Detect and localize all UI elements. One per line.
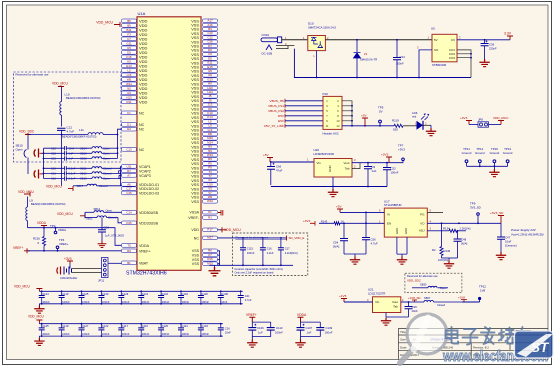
svg-text:+3V3: +3V3 — [64, 257, 72, 261]
svg-text:N5: N5 — [127, 86, 131, 90]
svg-text:+5V: +5V — [336, 205, 343, 209]
svg-text:VREF+: VREF+ — [59, 242, 69, 246]
svg-text:Vin: Vin — [317, 161, 322, 165]
svg-text:4.7uF: 4.7uF — [371, 242, 378, 246]
ground R136/C48 — [444, 261, 454, 269]
U1 left VDD pins — [122, 19, 137, 23]
svg-text:K5: K5 — [127, 59, 131, 63]
wire CN10 pin1 to D10 — [282, 39, 308, 41]
svg-text:L10: L10 — [65, 92, 70, 96]
wire to TP12 — [462, 301, 480, 303]
svg-text:Tab: Tab — [345, 167, 350, 171]
wire +5V to U17 VI — [340, 211, 384, 213]
svg-text:Closed: Closed — [437, 303, 446, 307]
svg-text:NC: NC — [139, 123, 145, 127]
ladder left bus — [43, 148, 45, 178]
svg-text:VDDLDO-03: VDDLDO-03 — [139, 192, 159, 196]
svg-text:1uF: 1uF — [307, 331, 312, 335]
svg-text:100nF: 100nF — [122, 300, 130, 304]
svg-text:BEAD(FCM1608KF-601T03): BEAD(FCM1608KF-601T03) — [31, 202, 65, 206]
svg-text:GND: GND — [328, 165, 332, 173]
svg-text:+3V3: +3V3 — [460, 116, 468, 120]
wire bottom return bus — [294, 49, 471, 78]
svg-text:C17: C17 — [285, 247, 290, 251]
svg-text:U5V_ST_LINK: U5V_ST_LINK — [264, 124, 285, 128]
svg-text:4.7uF: 4.7uF — [67, 129, 75, 133]
U1 left lower pins — [122, 111, 137, 115]
wire VDD_SDC branch to pads — [27, 136, 29, 174]
svg-text:+3V3_SD: +3V3_SD — [490, 211, 504, 215]
svg-text:G11: G11 — [126, 41, 132, 45]
svg-text:VDDA: VDDA — [297, 313, 307, 317]
svg-text:R1: R1 — [208, 215, 212, 219]
wire bypass caps return bus — [220, 264, 294, 266]
capacitor C16 — [262, 238, 264, 248]
svg-text:N13: N13 — [126, 95, 132, 99]
watermark elecfans logo — [400, 314, 553, 365]
svg-text:U9: U9 — [127, 91, 131, 95]
svg-text:3.3V: 3.3V — [504, 32, 512, 36]
svg-text:R119: R119 — [392, 119, 399, 123]
net label VDD_MCU at U1 pin P17 — [218, 229, 223, 231]
svg-text:C119: C119 — [62, 292, 69, 296]
wire U1 bottom VSS pins to ground — [218, 251, 220, 265]
svg-text:F1: F1 — [127, 111, 131, 115]
svg-text:D5V: D5V — [278, 114, 285, 118]
svg-text:+5V: +5V — [361, 114, 368, 118]
power bar VSSA/VREF- (U1 right) — [218, 210, 223, 216]
wire P10 pin12 to LED — [342, 125, 394, 127]
svg-text:C126: C126 — [162, 324, 169, 328]
svg-text:U5: U5 — [431, 27, 435, 31]
wire VREF+ to U1 — [28, 250, 122, 252]
svg-text:F3: F3 — [127, 32, 131, 36]
svg-text:+3V3: +3V3 — [381, 153, 389, 157]
svg-text:VDD_MCU: VDD_MCU — [493, 116, 508, 120]
svg-text:+3V3: +3V3 — [303, 219, 311, 223]
svg-text:B9: B9 — [127, 23, 131, 27]
ground VDDA caps — [301, 336, 321, 338]
svg-text:VBUS_FS1: VBUS_FS1 — [268, 104, 284, 108]
svg-text:SB27: SB27 — [424, 296, 431, 300]
svg-text:C117: C117 — [122, 324, 129, 328]
svg-text:C118: C118 — [201, 292, 208, 296]
svg-text:VDD_MCU: VDD_MCU — [57, 212, 73, 216]
svg-text:VCAP3: VCAP3 — [139, 174, 151, 178]
title block frame — [398, 328, 548, 359]
svg-text:P17: P17 — [207, 228, 213, 232]
svg-text:VI: VI — [387, 213, 390, 217]
ground C47 — [496, 252, 506, 260]
svg-text:P10: P10 — [323, 92, 329, 96]
svg-text:E3: E3 — [127, 127, 131, 131]
svg-text:C125: C125 — [42, 324, 49, 328]
svg-text:SO: SO — [434, 48, 439, 52]
capacitor C66 (47uF) — [267, 167, 275, 170]
svg-text:3V3_SD: 3V3_SD — [470, 205, 481, 209]
svg-text:TP3: TP3 — [50, 224, 56, 228]
svg-text:Reserved for alternate use: Reserved for alternate use — [16, 73, 49, 77]
svg-text:SMAJ5.0A-TR: SMAJ5.0A-TR — [360, 58, 377, 62]
svg-text:Placement for alternate use: Placement for alternate use — [235, 235, 268, 239]
svg-text:100nF: 100nF — [42, 332, 50, 336]
svg-text:NC: NC — [139, 148, 145, 152]
svg-text:VDD_MCU: VDD_MCU — [14, 285, 30, 289]
wire ADJ — [427, 230, 441, 232]
wire +5V to U20 Vin — [270, 161, 314, 163]
wire U5 CO1-3 tie — [457, 50, 471, 78]
svg-text:Header 6X2: Header 6X2 — [323, 132, 339, 136]
capacitor C110 — [267, 328, 275, 331]
svg-text:JP11: JP11 — [98, 279, 105, 283]
svg-text:ST890CDR: ST890CDR — [432, 63, 446, 67]
capacitor C52 — [386, 163, 388, 168]
ground LED — [430, 125, 432, 128]
ground TPs symbol — [489, 169, 499, 177]
capacitor C17 — [280, 238, 282, 248]
ladder right bus B — [120, 166, 122, 186]
pad symbol (EMI box lower) — [34, 170, 38, 179]
svg-text:VDD_MCU: VDD_MCU — [28, 315, 44, 319]
svg-text:PG: PG — [420, 213, 425, 217]
svg-text:10nF: 10nF — [412, 309, 419, 313]
svg-text:SM6T24CA 15KA 24.5: SM6T24CA 15KA 24.5 — [308, 25, 336, 29]
decoupling capacitor row 2 (C125..C16) — [39, 323, 222, 325]
svg-text:100nF: 100nF — [182, 332, 190, 336]
svg-text:GND: GND — [395, 228, 399, 234]
svg-text:C21: C21 — [245, 294, 250, 298]
wire D10 to U5 (24V rail) — [325, 39, 432, 41]
ground U1 bottom — [210, 264, 220, 266]
svg-text:[N/A]: [N/A] — [333, 245, 339, 249]
wire VREF+ cap bus — [252, 321, 270, 323]
svg-text:Ceramic capacitor (Low ESR <60: Ceramic capacitor (Low ESR <600m ohm) — [234, 267, 283, 271]
svg-text:Date:: Date: — [400, 345, 407, 349]
svg-text:C16: C16 — [267, 247, 272, 251]
capacitor C54 — [343, 223, 345, 238]
svg-text:VDD_SDC: VDD_SDC — [407, 279, 421, 283]
svg-text:BEAD(FCM1608KF-601T03): BEAD(FCM1608KF-601T03) — [66, 96, 100, 100]
wire U20 bottom bus — [271, 186, 387, 188]
svg-text:VREF+: VREF+ — [13, 246, 24, 250]
capacitor C115 — [242, 238, 244, 248]
decoupling capacitor row 1 (C124..C21) — [39, 290, 242, 292]
wire U17 VO rail — [427, 222, 478, 224]
svg-text:C124: C124 — [42, 292, 49, 296]
wire U20 Vout rail — [352, 162, 403, 164]
capacitor C106 — [248, 328, 256, 331]
svg-text:100nF: 100nF — [42, 300, 50, 304]
svg-text:U1A: U1A — [138, 11, 146, 16]
svg-text:10nF: 10nF — [221, 300, 227, 304]
svg-text:C14: C14 — [126, 210, 132, 214]
svg-text:VDD_MCU: VDD_MCU — [52, 81, 68, 85]
svg-text:D1: D1 — [127, 122, 131, 126]
svg-text:E5V: E5V — [278, 119, 285, 123]
svg-text:CR1220holder: CR1220holder — [60, 276, 77, 280]
svg-text:E13: E13 — [126, 64, 132, 68]
svg-text:C107: C107 — [306, 326, 313, 330]
svg-text:D5: D5 — [127, 50, 131, 54]
svg-text:1V8: 1V8 — [480, 288, 486, 292]
wire U5 CV to 3.3V — [457, 39, 510, 41]
svg-text:L11: L11 — [79, 128, 84, 132]
svg-text:100nF: 100nF — [142, 332, 150, 336]
svg-text:C34: C34 — [400, 55, 406, 59]
svg-text:+1V5: +1V5 — [339, 294, 347, 298]
pin header JP11 — [102, 258, 109, 278]
svg-text:VBUS_HS: VBUS_HS — [270, 99, 284, 103]
svg-text:100nF: 100nF — [182, 300, 190, 304]
svg-text:R11: R11 — [126, 100, 131, 104]
svg-text:100nF: 100nF — [162, 300, 170, 304]
wire U21 GND — [386, 313, 409, 318]
svg-text:1uF: 1uF — [258, 331, 263, 335]
capacitor C39 — [408, 302, 410, 307]
capacitor C56 — [365, 223, 367, 237]
svg-text:VDD_MCU: VDD_MCU — [46, 185, 62, 189]
svg-text:C121: C121 — [182, 324, 189, 328]
svg-text:GND: GND — [404, 228, 408, 234]
wire battery to JP11 — [72, 269, 102, 273]
battery BT1 CR1220 — [57, 267, 61, 275]
svg-text:100nF: 100nF — [396, 62, 404, 66]
svg-text:C109: C109 — [326, 326, 333, 330]
capacitor C34 — [396, 40, 398, 58]
svg-text:47uF: 47uF — [276, 168, 283, 172]
svg-text:4.7uF: 4.7uF — [245, 298, 252, 302]
svg-text:100nF: 100nF — [162, 332, 170, 336]
svg-text:100nF: 100nF — [391, 171, 399, 175]
svg-text:220nF: 220nF — [489, 47, 497, 51]
svg-text:R9: R9 — [127, 249, 131, 253]
svg-text:C110: C110 — [276, 326, 283, 330]
svg-text:Ground: Ground — [462, 151, 472, 155]
svg-text:A7: A7 — [127, 173, 131, 177]
wire U1 M17 to bypass caps — [218, 237, 287, 239]
svg-text:C126: C126 — [122, 292, 129, 296]
svg-text:L5: L5 — [127, 68, 131, 72]
svg-text:SD_VDD_E: SD_VDD_E — [289, 236, 305, 240]
svg-text:NC: NC — [139, 111, 145, 115]
svg-text:ST1L05BPUR: ST1L05BPUR — [384, 203, 402, 207]
svg-text:100nF: 100nF — [122, 332, 130, 336]
capacitor C47 — [500, 223, 502, 237]
wire P10 right pins tie — [342, 101, 352, 126]
svg-text:VDDA: VDDA — [37, 221, 47, 225]
svg-text:+1V8: +1V8 — [458, 296, 465, 300]
ground cap row 1 — [38, 304, 40, 306]
wire ground TPs bus — [467, 165, 508, 167]
svg-text:C7: C7 — [127, 37, 131, 41]
svg-text:C127: C127 — [82, 324, 89, 328]
svg-text:F15: F15 — [127, 55, 132, 59]
svg-text:VDD_MCU: VDD_MCU — [18, 190, 34, 194]
svg-text:Title: Title — [400, 330, 406, 334]
wire EN — [319, 222, 334, 224]
svg-text:Ground: Ground — [503, 151, 513, 155]
svg-text:VDD_MCU: VDD_MCU — [96, 20, 113, 24]
capacitor C107 — [297, 328, 305, 331]
svg-text:620: 620 — [393, 128, 398, 132]
pad symbol (EMI box upper) — [34, 149, 38, 158]
wire L11 to U1 NC pin — [118, 129, 122, 134]
svg-text:Size: Size — [400, 338, 406, 342]
svg-text:ST: ST — [531, 340, 550, 355]
svg-text:Power Supply 24V: Power Supply 24V — [511, 228, 537, 232]
svg-text:VSSA: VSSA — [189, 211, 199, 215]
svg-text:100nF: 100nF — [275, 331, 283, 335]
svg-text:C106: C106 — [257, 326, 264, 330]
svg-text:B11: B11 — [127, 28, 132, 32]
svg-text:100nF: 100nF — [201, 300, 209, 304]
svg-text:C36: C36 — [489, 43, 495, 47]
svg-text:LD39050PU33R: LD39050PU33R — [314, 152, 334, 156]
svg-text:100nF: 100nF — [325, 331, 333, 335]
svg-text:+5V: +5V — [263, 153, 270, 157]
svg-text:2.2uF[N/A]: 2.2uF[N/A] — [285, 251, 298, 255]
svg-text:NC: NC — [194, 236, 200, 240]
wire VDDA cap bus — [301, 321, 321, 323]
svg-text:C104: C104 — [201, 324, 208, 328]
svg-text:C131: C131 — [142, 292, 149, 296]
wire +1V5 to U21 — [344, 301, 373, 303]
svg-text:Vin: Vin — [375, 300, 380, 304]
svg-text:ADJ: ADJ — [419, 229, 425, 233]
capacitor C36 — [484, 40, 486, 44]
svg-text:U5: U5 — [127, 46, 131, 50]
svg-text:100nF: 100nF — [62, 300, 70, 304]
capacitor C12 — [57, 128, 66, 130]
svg-text:W10: W10 — [207, 199, 213, 203]
svg-text:L9: L9 — [30, 199, 34, 203]
svg-text:12: 12 — [336, 124, 340, 128]
svg-text:VBUS_FS2: VBUS_FS2 — [268, 109, 284, 113]
svg-text:EN: EN — [387, 222, 391, 226]
capacitor C9 — [367, 163, 369, 167]
svg-text:100nF: 100nF — [102, 300, 110, 304]
dashed box reserved (SD alt) — [405, 273, 462, 293]
svg-text:VDD_MCU: VDD_MCU — [224, 228, 241, 232]
wire VDDA to U1 — [28, 228, 122, 246]
svg-text:10uF: 10uF — [505, 240, 512, 244]
svg-text:Open: Open — [106, 208, 113, 212]
ground U17 — [397, 257, 407, 265]
dashed box reserved-for-alternate-use (EMI filter) — [14, 72, 122, 162]
svg-text:D15: D15 — [126, 221, 132, 225]
svg-text:100nF: 100nF — [102, 332, 110, 336]
svg-text:CN10: CN10 — [262, 33, 270, 37]
svg-text:100nF: 100nF — [247, 251, 255, 255]
svg-text:100nF: 100nF — [201, 332, 209, 336]
ground C36 — [479, 59, 489, 67]
svg-text:Only one 2.2uF required on boa: Only one 2.2uF required on board — [234, 270, 273, 274]
svg-text:CV: CV — [451, 38, 455, 42]
svg-text:Z1: Z1 — [364, 52, 368, 56]
diode Z1 (SMAJ5.0A-TR) — [356, 40, 358, 52]
ground U20 — [328, 189, 338, 197]
svg-text:100nF: 100nF — [62, 332, 70, 336]
svg-text:C122: C122 — [102, 324, 109, 328]
svg-text:C16: C16 — [225, 326, 230, 330]
svg-text:DC-10B: DC-10B — [262, 52, 273, 56]
svg-text:VCAP2: VCAP2 — [139, 169, 151, 173]
svg-text:[Ceramic]: [Ceramic] — [505, 244, 517, 248]
svg-text:L15: L15 — [127, 73, 132, 77]
wire R136/C48 return — [442, 257, 458, 259]
svg-text:Ground: Ground — [490, 151, 500, 155]
svg-text:VDDA: VDDA — [58, 228, 66, 232]
svg-text:100nF: 100nF — [82, 300, 90, 304]
ground U21 — [381, 318, 391, 326]
wire VDD_MCU to SB rows — [84, 212, 86, 217]
wire U17 PG — [427, 211, 443, 213]
svg-text:100nF: 100nF — [142, 300, 150, 304]
svg-text:JP8: JP8 — [478, 118, 483, 122]
net label SD_VDD_E — [286, 236, 288, 241]
svg-text:C125: C125 — [82, 292, 89, 296]
svg-text:P1: P1 — [208, 210, 212, 214]
svg-text:Tab: Tab — [393, 305, 398, 309]
ground cap row 2 — [38, 336, 40, 338]
svg-text:10K[1%]: 10K[1%] — [438, 258, 448, 262]
svg-text:2.2uF: 2.2uF — [267, 251, 274, 255]
svg-text:10nF: 10nF — [225, 330, 231, 334]
svg-text:+3V3: +3V3 — [398, 147, 405, 151]
svg-text:B5: B5 — [127, 19, 131, 23]
svg-text:11: 11 — [325, 124, 328, 128]
svg-text:Vout=1.25V(1+R134/R136): Vout=1.25V(1+R134/R136) — [511, 233, 544, 237]
svg-text:U21: U21 — [368, 288, 374, 292]
svg-text:Vout: Vout — [343, 161, 349, 165]
svg-text:VDD33USB: VDD33USB — [139, 221, 159, 225]
svg-text:SB30: SB30 — [420, 283, 427, 287]
wire U17 GND pins — [397, 237, 407, 256]
wire U5 SO to return bus — [419, 50, 432, 78]
svg-text:VDD: VDD — [191, 228, 199, 232]
svg-text:C132: C132 — [162, 292, 169, 296]
wire U17 input caps return — [344, 253, 366, 255]
svg-text:C110: C110 — [142, 324, 149, 328]
svg-text:VREF+: VREF+ — [139, 249, 151, 253]
svg-text:Vout: Vout — [392, 300, 398, 304]
svg-text:Reserved for alternate use: Reserved for alternate use — [407, 274, 438, 278]
svg-text:R7: R7 — [127, 169, 131, 173]
svg-text:C119: C119 — [62, 324, 69, 328]
svg-text:C130: C130 — [102, 292, 109, 296]
svg-text:VO: VO — [420, 222, 425, 226]
svg-text:10: 10 — [336, 119, 340, 123]
svg-text:M17: M17 — [207, 236, 213, 240]
svg-text:C13: C13 — [126, 147, 132, 151]
svg-text:+1V8_SD: +1V8_SD — [408, 296, 420, 300]
svg-text:CO3: CO3 — [449, 56, 456, 60]
svg-text:1uF: 1uF — [372, 169, 377, 173]
svg-text:W5: W5 — [127, 77, 132, 81]
svg-text:red: red — [412, 115, 417, 119]
svg-text:[N/A]: [N/A] — [461, 242, 467, 246]
ground U17 input caps — [350, 257, 360, 265]
svg-text:VBAT: VBAT — [139, 261, 149, 265]
svg-text:VDD: VDD — [139, 100, 148, 105]
svg-text:5V: 5V — [434, 38, 438, 42]
svg-text:C15: C15 — [126, 191, 132, 195]
svg-text:NC: NC — [139, 128, 145, 132]
svg-text:VSS: VSS — [192, 262, 200, 266]
ground C29 — [98, 241, 107, 247]
svg-text:VDD_SDC: VDD_SDC — [19, 129, 35, 133]
svg-text:C134: C134 — [182, 292, 189, 296]
